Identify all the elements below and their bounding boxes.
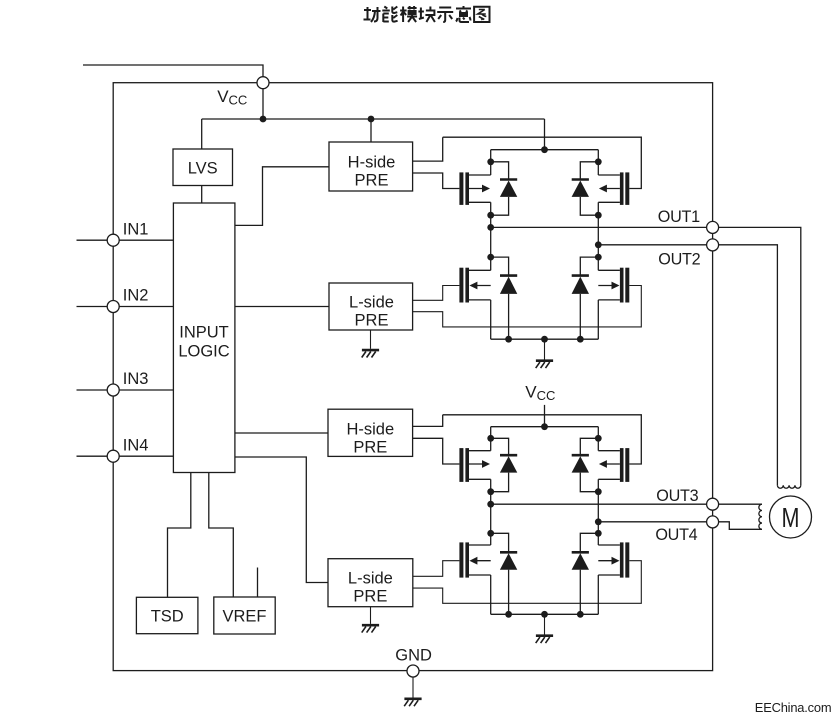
wire bridge1 HR channel	[598, 174, 620, 176]
svg-text:PRE: PRE	[355, 172, 389, 190]
svg-text:OUT1: OUT1	[658, 208, 700, 226]
wire INPUT LOGIC to L-side PRE1	[235, 306, 329, 308]
terminal OUT4	[707, 516, 719, 528]
wire VCC to bridge1 rail	[544, 119, 546, 150]
wire L-side PRE2 to ground	[370, 607, 372, 624]
transistor bridge1 low-side left	[459, 268, 490, 303]
wire bridge2 HR diode taps	[580, 438, 598, 454]
transistor bridge2 low-side right	[598, 542, 629, 577]
wire bridge1 HL diode taps	[491, 162, 509, 179]
terminal OUT2	[707, 239, 719, 251]
wire H-side PRE2 out B	[413, 438, 460, 464]
wire bridge1 right branch	[597, 150, 599, 175]
wire H-side PRE2 out A	[413, 415, 443, 427]
terminal OUT3	[707, 498, 719, 510]
transistor bridge2 high-side right	[599, 448, 629, 482]
wire bridge2 right branch	[597, 427, 599, 451]
svg-text:OUT3: OUT3	[656, 487, 698, 505]
wire INPUT LOGIC to TSD	[168, 473, 191, 598]
wire INPUT LOGIC to VREF	[209, 473, 234, 598]
node VCC-LVS junction	[260, 116, 267, 123]
svg-text:GND: GND	[395, 647, 432, 665]
node bridge1 out left	[487, 224, 494, 231]
wire bridge1 LL diode taps	[491, 257, 509, 275]
title text 功能模块示意图 (drawn strokes)	[364, 6, 490, 22]
wire bridge1 top gate feed	[443, 137, 642, 188]
svg-text:H-side: H-side	[346, 420, 394, 438]
node bridge2 out right	[595, 518, 602, 525]
diode bridge1 high-side right body diode	[572, 180, 589, 197]
wire OUT3	[491, 503, 762, 505]
svg-text:PRE: PRE	[353, 438, 387, 456]
wire bridge1 rail to ground	[544, 339, 546, 360]
node bridge2 HL drain	[487, 435, 494, 442]
wire bridge2 LR channel	[598, 544, 620, 546]
svg-text:H-side: H-side	[348, 154, 396, 172]
outer IC boundary box	[113, 83, 712, 671]
node bridge2 out left	[487, 501, 494, 508]
svg-text:PRE: PRE	[353, 588, 387, 606]
wire bridge1 LR diode taps	[580, 257, 598, 275]
svg-text:LVS: LVS	[188, 160, 218, 178]
wire H-side PRE1 out B	[413, 173, 460, 189]
wire LVS to INPUT LOGIC	[201, 186, 203, 204]
motor M	[770, 496, 812, 538]
wire VCC drop	[262, 88, 264, 119]
node bridge2 source rail diode taps	[505, 611, 512, 618]
wire L-side PRE1 out B / bottom gate feed	[413, 286, 642, 327]
node bridge1 VCC tap	[541, 146, 548, 153]
diode bridge1 low-side right body diode	[572, 276, 589, 294]
node bridge1 HR drain	[595, 158, 602, 165]
svg-text:LOGIC: LOGIC	[178, 342, 229, 360]
wire VREF stub	[257, 568, 259, 598]
wire bridge1 LL channel	[469, 269, 491, 271]
node bridge2 LL drain	[487, 530, 494, 537]
terminal VCC	[257, 77, 269, 89]
wire L-side PRE1 out A	[413, 286, 460, 301]
wire IN1	[77, 239, 174, 241]
svg-text:OUT2: OUT2	[658, 251, 700, 269]
transistor bridge2 low-side left	[459, 542, 490, 577]
transistor bridge1 high-side left	[459, 172, 490, 205]
wire bridge2 top gate feed	[443, 415, 642, 464]
svg-text:OUT4: OUT4	[655, 526, 697, 544]
wire bridge2 LL channel	[469, 544, 491, 546]
ground bridge2 bridge	[536, 636, 553, 643]
svg-text:INPUT: INPUT	[179, 324, 229, 342]
node bridge2 VCC tap	[541, 423, 548, 430]
terminal IN2	[107, 301, 119, 313]
node bridge1 HL drain	[487, 158, 494, 165]
wire bridge2 HR channel	[598, 450, 620, 452]
node bridge1 LL drain	[487, 254, 494, 261]
wire bridge2 LR diode taps	[580, 533, 598, 551]
diode bridge2 low-side left body diode	[500, 552, 517, 569]
wire IN3	[77, 389, 174, 391]
wire bridge2 rail to ground	[544, 614, 546, 635]
wire OUT4	[598, 521, 712, 523]
node VCC-HsidePRE junction	[368, 116, 375, 123]
wire bridge2 HL diode taps	[491, 438, 509, 454]
wire IN2	[77, 306, 174, 308]
wire bridge1 source rail	[491, 338, 599, 340]
wire bridge2 left branch	[490, 427, 492, 451]
ground under GND terminal	[404, 699, 421, 706]
transistor bridge1 high-side right	[599, 172, 629, 205]
ground under L-side PRE2	[362, 625, 379, 632]
wire bridge2 drain rail	[491, 426, 599, 428]
node bridge2 HR source	[595, 488, 602, 495]
block H-side PRE2	[328, 409, 413, 456]
svg-text:M: M	[782, 502, 800, 533]
wire bridge1 drain rail	[491, 149, 599, 151]
node bridge2 HR drain	[595, 435, 602, 442]
winding OUT1-OUT2 (horizontal coil)	[777, 485, 800, 488]
block INPUT LOGIC	[173, 203, 235, 473]
terminal GND	[407, 665, 419, 677]
transistor bridge1 low-side right	[598, 268, 629, 303]
wire L-side PRE2 out B / bottom gate feed	[413, 561, 642, 604]
wire VCC2 to bridge2 rail	[544, 405, 546, 427]
svg-text:IN3: IN3	[123, 370, 149, 388]
wire INPUT LOGIC to H-side PRE2	[235, 432, 328, 434]
node bridge1 LR drain	[595, 254, 602, 261]
wire H-side PRE1 out A	[413, 137, 443, 161]
svg-text:IN2: IN2	[123, 287, 149, 305]
terminal IN4	[107, 450, 119, 462]
node bridge1 out right	[595, 241, 602, 248]
ground bridge1 bridge	[536, 361, 553, 368]
diode bridge2 high-side left body diode	[500, 455, 517, 472]
wire IN4	[77, 455, 174, 457]
svg-text:TSD: TSD	[151, 608, 184, 626]
node bridge2 LR drain	[595, 530, 602, 537]
diode bridge2 high-side right body diode	[572, 455, 589, 472]
wire L-side PRE2 out A	[413, 561, 460, 577]
wire OUT1	[491, 227, 801, 485]
node bridge1 source rail diode taps	[505, 336, 512, 343]
block H-side PRE1	[329, 142, 413, 191]
terminal IN3	[107, 384, 119, 396]
diode bridge1 high-side left body diode	[500, 180, 517, 197]
svg-text:L-side: L-side	[349, 294, 394, 312]
winding OUT3-OUT4 (vertical coil)	[759, 504, 762, 529]
svg-text:IN1: IN1	[123, 220, 149, 238]
block VREF	[214, 597, 275, 634]
node bridge2 HL source	[487, 488, 494, 495]
wire bridge2 source rail	[491, 613, 599, 615]
wire L-side PRE1 to ground	[370, 330, 372, 349]
node bridge1 HL source	[487, 212, 494, 219]
wire VCC rail	[202, 118, 545, 120]
terminal OUT1	[707, 221, 719, 233]
diode bridge2 low-side right body diode	[572, 552, 589, 569]
block L-side PRE1	[329, 283, 413, 330]
ground under L-side PRE1	[362, 350, 379, 357]
block L-side PRE2	[328, 559, 413, 607]
block TSD	[136, 597, 198, 633]
wire bridge1 HR diode taps	[580, 162, 598, 179]
wire bridge1 LR channel	[598, 269, 620, 271]
wire INPUT LOGIC to H-side PRE1	[235, 167, 329, 226]
wire OUT2	[598, 245, 777, 485]
wire GND to ground	[412, 677, 414, 698]
svg-text:IN4: IN4	[123, 436, 149, 454]
wire INPUT LOGIC to L-side PRE2	[235, 457, 328, 583]
wire top feeder to VCC	[83, 65, 263, 77]
wire LVS drop	[201, 119, 203, 149]
wire bridge2 HL channel	[469, 450, 491, 452]
node bridge1 HR source	[595, 212, 602, 219]
terminal IN1	[107, 234, 119, 246]
block LVS	[173, 149, 233, 186]
svg-text:L-side: L-side	[348, 570, 393, 588]
svg-text:PRE: PRE	[355, 312, 389, 330]
diode bridge1 low-side left body diode	[500, 276, 517, 294]
svg-text:VREF: VREF	[222, 608, 266, 626]
wire bridge1 left branch	[490, 150, 492, 175]
transistor bridge2 high-side left	[459, 448, 490, 482]
wire H-side PRE1 top feed	[370, 119, 372, 142]
wire bridge1 HL channel	[469, 174, 491, 176]
wire bridge2 LL diode taps	[491, 533, 509, 551]
svg-text:EEChina.com: EEChina.com	[755, 700, 832, 715]
